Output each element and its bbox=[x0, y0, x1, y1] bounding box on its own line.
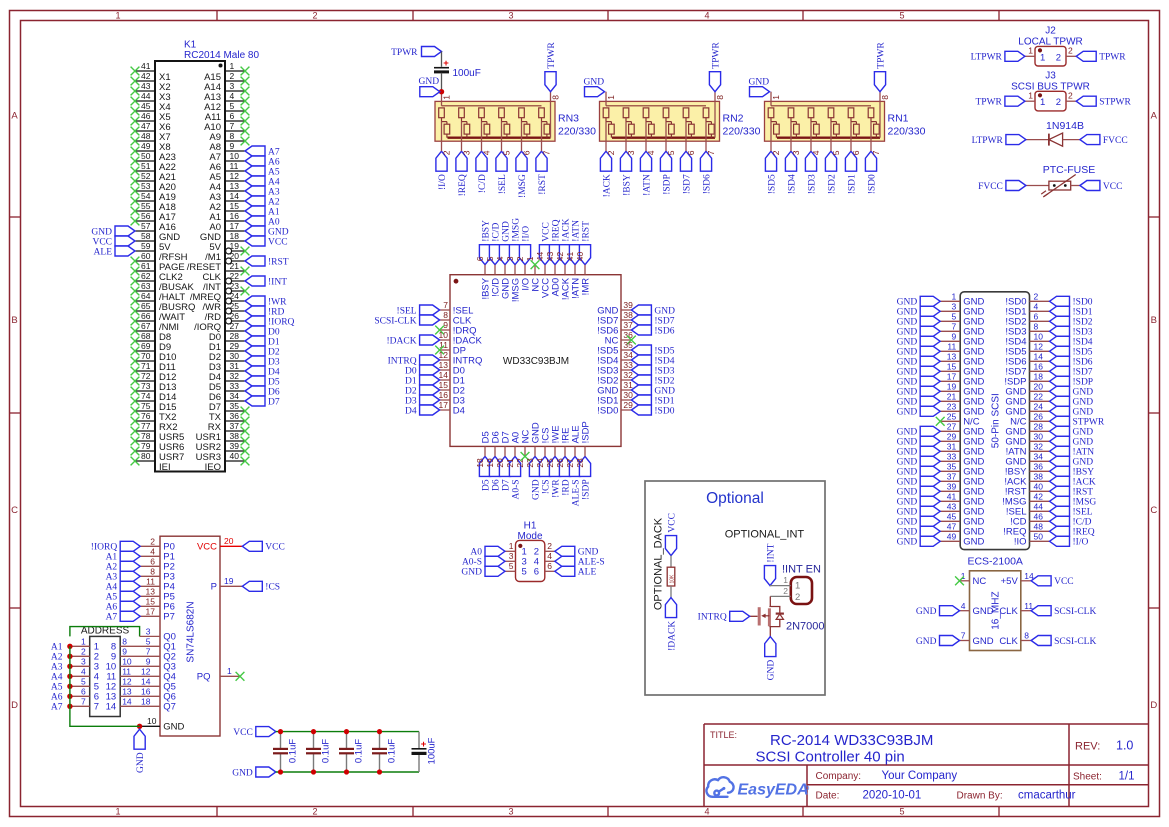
jumper pin 1 wire bbox=[770, 585, 791, 587]
SCSI pin 25 N/C bbox=[940, 420, 960, 422]
net flag !SDP at WD pin 28 bbox=[579, 456, 590, 476]
svg-text:!SEL: !SEL bbox=[397, 306, 417, 316]
svg-text:2020-10-01: 2020-10-01 bbox=[863, 790, 922, 802]
capacitor C? 0.1uF #4 bbox=[379, 732, 381, 749]
svg-text:!C/D: !C/D bbox=[1073, 518, 1092, 528]
WD33C93BJM pin 11 DP bbox=[440, 349, 450, 351]
svg-text:PTC-FUSE: PTC-FUSE bbox=[1043, 164, 1096, 176]
RN2 resistor element bottom leg 3 bbox=[629, 124, 635, 134]
svg-text:!SDP: !SDP bbox=[580, 421, 591, 443]
net flag D2 at WD pin 15 bbox=[420, 385, 440, 395]
svg-text:1: 1 bbox=[1028, 46, 1033, 56]
svg-text:GND: GND bbox=[654, 306, 675, 316]
SCSI pin 43 GND bbox=[940, 510, 960, 512]
svg-text:GND: GND bbox=[973, 606, 994, 617]
WD33C93BJM pin 6 !BSY bbox=[484, 265, 486, 275]
svg-text:12: 12 bbox=[122, 677, 132, 687]
svg-text:GND: GND bbox=[897, 428, 918, 438]
svg-text:SN74LS682N: SN74LS682N bbox=[185, 601, 196, 662]
svg-text:0.1uF: 0.1uF bbox=[288, 739, 299, 763]
svg-text:78: 78 bbox=[141, 431, 151, 441]
ground flag GND at SCSI pin 39 bbox=[920, 486, 940, 496]
resistor network RN2 body 220/330 bbox=[600, 101, 720, 141]
svg-text:6: 6 bbox=[547, 561, 552, 571]
svg-text:37: 37 bbox=[623, 320, 633, 330]
K1 pin 14 A2 bbox=[225, 200, 245, 202]
SCSI pin 12 !SD5 bbox=[1030, 350, 1050, 352]
svg-text:!SD0: !SD0 bbox=[597, 405, 618, 416]
K1 pin 4 A12 bbox=[225, 100, 245, 102]
K1 pin 62 /BUSAK bbox=[135, 280, 155, 282]
svg-text:!I/O: !I/O bbox=[521, 226, 531, 242]
svg-text:+: + bbox=[443, 58, 449, 69]
net flag !SD2 at WD pin 32 bbox=[631, 375, 651, 385]
svg-text:!MSG: !MSG bbox=[518, 174, 528, 198]
svg-text:2: 2 bbox=[312, 10, 317, 20]
SCSI pin 42 !MSG bbox=[1030, 500, 1050, 502]
K1 pin 57 GND bbox=[135, 230, 155, 232]
svg-text:42: 42 bbox=[1034, 492, 1044, 502]
svg-text:66: 66 bbox=[141, 311, 151, 321]
SCSI pin 32 !ATN bbox=[1030, 450, 1050, 452]
capacitor C? 0.1uF #3 bbox=[346, 732, 348, 749]
WD33C93BJM pin 12 INTRQ bbox=[440, 359, 450, 361]
svg-text:!SD3: !SD3 bbox=[654, 366, 674, 376]
svg-text:5: 5 bbox=[522, 567, 527, 578]
svg-text:20: 20 bbox=[1034, 382, 1044, 392]
svg-text:14: 14 bbox=[122, 697, 132, 707]
svg-text:5: 5 bbox=[230, 101, 235, 111]
K1 pin 5 A11 bbox=[225, 110, 245, 112]
svg-text:14: 14 bbox=[106, 702, 117, 713]
svg-text:38: 38 bbox=[623, 310, 633, 320]
svg-text:!IORQ: !IORQ bbox=[268, 317, 295, 327]
wire resistor to !DACK flag bbox=[670, 586, 672, 598]
WD33C93BJM pin 19 D6 bbox=[494, 446, 496, 456]
svg-text:73: 73 bbox=[141, 381, 151, 391]
net flag D0 at K1 pin 27 bbox=[245, 326, 265, 336]
K1 pin 38 USR2 bbox=[225, 440, 245, 442]
svg-text:!SD1: !SD1 bbox=[1073, 308, 1093, 318]
svg-text:TPWR: TPWR bbox=[976, 98, 1003, 108]
net flag !SEL at SCSI pin 44 bbox=[1050, 506, 1070, 516]
svg-text:GND: GND bbox=[1073, 458, 1094, 468]
svg-text:!WR: !WR bbox=[268, 297, 287, 307]
net flag LTPWR at J2 pin 1 bbox=[1005, 51, 1025, 61]
svg-text:A: A bbox=[1151, 111, 1158, 122]
net flag D1 at WD pin 14 bbox=[420, 375, 440, 385]
svg-text:VCC: VCC bbox=[667, 513, 677, 533]
net flag VCC at fuse right bbox=[1080, 181, 1100, 191]
svg-text:K1: K1 bbox=[184, 40, 197, 51]
svg-text:11: 11 bbox=[230, 161, 239, 171]
svg-text:7: 7 bbox=[94, 702, 99, 713]
ground flag GND at 2N7000 source bbox=[765, 637, 776, 657]
svg-text:2: 2 bbox=[783, 586, 788, 596]
svg-text:A7: A7 bbox=[51, 703, 63, 713]
K1 pin 18 5V bbox=[225, 240, 245, 242]
RN2 pin 4 wire bbox=[645, 122, 647, 152]
svg-text:SCSI-CLK: SCSI-CLK bbox=[374, 316, 416, 326]
svg-text:27: 27 bbox=[230, 321, 240, 331]
svg-text:46: 46 bbox=[1034, 512, 1044, 522]
svg-text:50-Pin SCSI: 50-Pin SCSI bbox=[990, 393, 1001, 448]
svg-text:17: 17 bbox=[230, 221, 240, 231]
net flag !SEL at RN3 pin 5 bbox=[496, 151, 507, 171]
K1 pin 36 RX bbox=[225, 420, 245, 422]
net flag !SEL at WD pin 7 bbox=[420, 305, 440, 315]
ADDRESS switch pin 10 wire to 682 bbox=[120, 665, 160, 667]
SCSI pin 48 !REQ bbox=[1030, 530, 1050, 532]
svg-text:0.1uF: 0.1uF bbox=[387, 739, 398, 763]
net flag INTRQ at WD pin 12 bbox=[420, 355, 440, 365]
svg-text:5: 5 bbox=[81, 677, 86, 687]
svg-text:45: 45 bbox=[141, 101, 151, 111]
RN1 resistor element bottom leg 4 bbox=[814, 124, 820, 134]
SCSI pin 14 !SD6 bbox=[1030, 360, 1050, 362]
K1 pin 70 D11 bbox=[135, 360, 155, 362]
SCSI pin 50 !IO bbox=[1030, 540, 1050, 542]
svg-text:39: 39 bbox=[623, 300, 633, 310]
svg-text:3: 3 bbox=[626, 150, 636, 155]
net flag VCC at osc pin 14 bbox=[1031, 576, 1051, 586]
svg-text:57: 57 bbox=[141, 221, 151, 231]
svg-text:16: 16 bbox=[141, 687, 151, 697]
svg-text:A4: A4 bbox=[268, 177, 280, 187]
RN1 pin 3 wire bbox=[790, 122, 792, 152]
RN2 resistor element top leg 2 bbox=[603, 108, 609, 118]
WD33C93BJM pin 36 NC bbox=[621, 339, 631, 341]
WD33C93BJM pin 5 !C/D bbox=[494, 265, 496, 275]
svg-text:!ATN: !ATN bbox=[1073, 448, 1095, 458]
RN3 internal bottom rail bbox=[448, 136, 551, 138]
svg-text:2: 2 bbox=[1034, 292, 1039, 302]
net flag !RST at K1 pin 20 bbox=[245, 256, 265, 266]
svg-text:1: 1 bbox=[771, 95, 781, 100]
svg-text:!RST: !RST bbox=[581, 221, 591, 242]
K1 pin 20 /RESET bbox=[226, 258, 232, 264]
svg-text:!INT EN: !INT EN bbox=[782, 563, 821, 575]
net flag !SD7 at SCSI pin 16 bbox=[1050, 366, 1070, 376]
K1 pin 3 A13 bbox=[225, 90, 245, 92]
svg-text:29: 29 bbox=[623, 400, 633, 410]
svg-text:3: 3 bbox=[462, 150, 472, 155]
svg-text:42: 42 bbox=[555, 251, 565, 261]
K1 pin 11 A5 bbox=[225, 170, 245, 172]
svg-text:1: 1 bbox=[951, 292, 956, 302]
SCSI pin 36 !BSY bbox=[1030, 470, 1050, 472]
RN3 resistor element bottom leg 5 bbox=[504, 124, 510, 134]
svg-text:1: 1 bbox=[525, 256, 535, 261]
svg-text:GND: GND bbox=[897, 408, 918, 418]
WD33C93BJM pin 10 !DACK bbox=[440, 339, 450, 341]
net flag !INT at K1 pin 22 bbox=[245, 276, 265, 286]
ADDRESS switch pin 3 wire bbox=[70, 665, 90, 667]
SN74LS682N pin 17 P7 bbox=[140, 615, 160, 617]
ADDRESS switch pin 14 wire to 682 bbox=[120, 705, 160, 707]
net flag !DACK in Optional bbox=[665, 598, 676, 618]
EasyEDA logo bbox=[706, 777, 733, 797]
SCSI pin 5 GND bbox=[940, 320, 960, 322]
svg-text:39: 39 bbox=[947, 482, 957, 492]
svg-text:!ACK: !ACK bbox=[1073, 478, 1096, 488]
svg-text:GND: GND bbox=[501, 221, 511, 242]
net flag !SD4 at SCSI pin 10 bbox=[1050, 336, 1070, 346]
svg-text:A0-S: A0-S bbox=[511, 479, 521, 499]
svg-text:+5V: +5V bbox=[1001, 576, 1019, 587]
resistor network RN1 body 220/330 bbox=[765, 101, 885, 141]
svg-text:35: 35 bbox=[947, 462, 957, 472]
SCSI pin 49 GND bbox=[940, 540, 960, 542]
fuse F? PTC-FUSE bbox=[1026, 185, 1049, 187]
net flag GND at SCSI pin 24 bbox=[1050, 406, 1070, 416]
power flag VCC in Optional bbox=[665, 536, 676, 556]
SCSI pin 4 !SD1 bbox=[1030, 310, 1050, 312]
net flag !IORQ at 682 pin 2 bbox=[120, 541, 140, 551]
K1 pin 48 X8 bbox=[135, 140, 155, 142]
net flag !RST at WD pin 40 bbox=[579, 245, 590, 265]
net flag !BSY at WD pin 6 bbox=[479, 245, 490, 265]
svg-text:8: 8 bbox=[1024, 631, 1029, 641]
svg-text:VCC: VCC bbox=[92, 237, 112, 247]
svg-text:5: 5 bbox=[899, 806, 904, 816]
svg-text:30: 30 bbox=[1034, 432, 1044, 442]
RN1 pin 5 wire bbox=[830, 122, 832, 152]
svg-text:GND: GND bbox=[916, 607, 937, 617]
WD33C93BJM pin 3 !MSG bbox=[514, 265, 516, 275]
svg-text:C: C bbox=[11, 505, 18, 516]
K1 pin 13 A3 bbox=[225, 190, 245, 192]
svg-text:6: 6 bbox=[534, 567, 539, 578]
SCSI pin 18 !SDP bbox=[1030, 380, 1050, 382]
svg-text:GND: GND bbox=[897, 338, 918, 348]
connector H1 Mode body bbox=[516, 540, 545, 581]
svg-text:GND: GND bbox=[973, 636, 994, 647]
RN2 pin 1 wire bbox=[605, 92, 607, 106]
svg-text:63: 63 bbox=[141, 281, 151, 291]
WD33C93BJM pin 14 D1 bbox=[440, 379, 450, 381]
net flag A1 at 682 pin 4 bbox=[120, 551, 140, 561]
svg-text:25: 25 bbox=[545, 458, 555, 468]
svg-text:GND: GND bbox=[461, 568, 482, 578]
K1 pin 27 D0 bbox=[225, 330, 245, 332]
wire VCC rail (green) bbox=[276, 731, 419, 733]
SN74LS682N pin 2 P0 bbox=[140, 545, 160, 547]
svg-text:D3: D3 bbox=[405, 396, 417, 406]
svg-text:A0: A0 bbox=[470, 548, 482, 558]
svg-text:GND: GND bbox=[232, 768, 253, 778]
svg-text:ECS-2100A: ECS-2100A bbox=[967, 556, 1022, 568]
svg-text:GND: GND bbox=[897, 498, 918, 508]
svg-text:14: 14 bbox=[141, 677, 151, 687]
SN74LS682N pin 15 P6 bbox=[140, 605, 160, 607]
RN1 resistor element top leg 2 bbox=[768, 108, 774, 118]
svg-text:5: 5 bbox=[509, 561, 514, 571]
net flag GND at SCSI pin 30 bbox=[1050, 436, 1070, 446]
svg-text:!CS: !CS bbox=[541, 479, 551, 494]
svg-text:1: 1 bbox=[442, 95, 452, 100]
svg-text:!SD1: !SD1 bbox=[654, 396, 674, 406]
svg-text:A: A bbox=[11, 111, 18, 122]
K1 pin 42 X2 bbox=[135, 80, 155, 82]
K1 pin 8 A8 bbox=[225, 140, 245, 142]
svg-text:2: 2 bbox=[1056, 52, 1061, 63]
svg-text:8: 8 bbox=[150, 567, 155, 577]
svg-text:REV:: REV: bbox=[1075, 741, 1100, 753]
RN1 resistor element bottom leg 5 bbox=[834, 124, 840, 134]
svg-text:32: 32 bbox=[623, 370, 633, 380]
net flag A6 at K1 pin 10 bbox=[245, 156, 265, 166]
net flag A7 at 682 pin 17 bbox=[120, 611, 140, 621]
svg-text:19: 19 bbox=[485, 458, 495, 468]
svg-text:6: 6 bbox=[522, 150, 532, 155]
svg-text:C: C bbox=[1150, 505, 1157, 516]
net flag ALE-S at WD pin 27 bbox=[569, 456, 580, 476]
RN1 pin 8 wire bbox=[879, 92, 881, 138]
net flag GND at WD pin 23 bbox=[529, 456, 540, 476]
K1 pin 40 IEO bbox=[225, 460, 245, 462]
svg-text:GND: GND bbox=[268, 227, 289, 237]
svg-text:9: 9 bbox=[122, 647, 127, 657]
svg-text:!SD2: !SD2 bbox=[654, 376, 674, 386]
svg-text:Mode: Mode bbox=[517, 531, 542, 542]
SCSI pin 22 GND bbox=[1030, 400, 1050, 402]
K1 pin 1 A15 bbox=[225, 70, 245, 72]
K1 pin 73 D14 bbox=[135, 390, 155, 392]
svg-text:8: 8 bbox=[122, 637, 127, 647]
svg-text:ALE-S: ALE-S bbox=[571, 479, 581, 506]
svg-text:32: 32 bbox=[230, 371, 240, 381]
RN1 resistor element bottom leg 7 bbox=[874, 124, 880, 134]
svg-text:GND: GND bbox=[897, 298, 918, 308]
svg-text:GND: GND bbox=[897, 368, 918, 378]
SCSI pin 2 !SD0 bbox=[1030, 300, 1050, 302]
svg-text:!RST: !RST bbox=[538, 174, 548, 195]
svg-text:GND: GND bbox=[897, 458, 918, 468]
RN1 resistor element top leg 3 bbox=[788, 108, 794, 118]
svg-text:13: 13 bbox=[947, 352, 957, 362]
svg-text:38: 38 bbox=[1034, 472, 1044, 482]
capacitor C? 0.1uF #2 bbox=[313, 732, 315, 749]
svg-text:35: 35 bbox=[230, 401, 240, 411]
svg-text:9: 9 bbox=[951, 332, 956, 342]
svg-text:7: 7 bbox=[443, 300, 448, 310]
RN2 pin 3 wire bbox=[625, 122, 627, 152]
SCSI pin 24 GND bbox=[1030, 410, 1050, 412]
svg-text:!SD7: !SD7 bbox=[654, 316, 674, 326]
svg-text:!IORQ: !IORQ bbox=[91, 543, 118, 553]
SCSI pin 21 GND bbox=[940, 400, 960, 402]
svg-text:!MSG: !MSG bbox=[511, 218, 521, 242]
oscillator pin 4 GND bbox=[960, 610, 970, 612]
svg-text:3: 3 bbox=[508, 806, 513, 816]
svg-text:!SEL: !SEL bbox=[498, 174, 508, 194]
svg-text:A2: A2 bbox=[106, 563, 118, 573]
svg-text:15: 15 bbox=[230, 201, 240, 211]
net flag !C/D at WD pin 5 bbox=[489, 245, 500, 265]
svg-text:B: B bbox=[11, 315, 17, 326]
svg-text:13: 13 bbox=[439, 360, 449, 370]
J2 pin 1 wire bbox=[1025, 55, 1035, 57]
svg-text:40: 40 bbox=[575, 251, 585, 261]
svg-text:220/330: 220/330 bbox=[888, 126, 926, 138]
K1 pin 64 /BUSRQ bbox=[135, 300, 155, 302]
svg-text:23: 23 bbox=[947, 402, 957, 412]
connector K1 RC2014 Male 80 body bbox=[155, 61, 225, 472]
svg-text:52: 52 bbox=[141, 171, 151, 181]
svg-text:GND: GND bbox=[897, 378, 918, 388]
junction dot at A2 bbox=[67, 654, 72, 659]
svg-text:3: 3 bbox=[505, 256, 515, 261]
svg-text:!MR: !MR bbox=[580, 278, 591, 296]
svg-text:TPWR: TPWR bbox=[876, 42, 886, 69]
K1 pin 16 A0 bbox=[225, 220, 245, 222]
svg-text:2: 2 bbox=[795, 592, 800, 603]
svg-text:80: 80 bbox=[141, 451, 151, 461]
svg-text:GND: GND bbox=[897, 468, 918, 478]
ground flag GND at SCSI pin 1 bbox=[920, 296, 940, 306]
svg-text:!IO: !IO bbox=[1014, 537, 1027, 548]
SCSI pin 34 GND bbox=[1030, 460, 1050, 462]
svg-text:0.1uF: 0.1uF bbox=[354, 739, 365, 763]
junction dots cap #3 bbox=[344, 729, 349, 734]
svg-text:2: 2 bbox=[81, 647, 86, 657]
svg-text:13: 13 bbox=[146, 587, 156, 597]
svg-text:30: 30 bbox=[230, 351, 240, 361]
net flag !SD5 at SCSI pin 12 bbox=[1050, 346, 1070, 356]
svg-text:79: 79 bbox=[141, 441, 151, 451]
ground flag GND at SCSI pin 15 bbox=[920, 366, 940, 376]
svg-text:8: 8 bbox=[1034, 322, 1039, 332]
svg-text:36: 36 bbox=[1034, 462, 1044, 472]
ground flag GND at decoupling rail bbox=[256, 767, 276, 777]
svg-text:!SEL: !SEL bbox=[1073, 508, 1093, 518]
SCSI pin 33 GND bbox=[940, 460, 960, 462]
ground flag GND at SCSI pin 23 bbox=[920, 406, 940, 416]
svg-text:Optional: Optional bbox=[706, 490, 764, 507]
K1 pin 74 D15 bbox=[135, 400, 155, 402]
net flag !SD5 at RN1 pin 2 bbox=[765, 151, 776, 171]
svg-text:32: 32 bbox=[1034, 442, 1044, 452]
svg-text:A6: A6 bbox=[51, 693, 63, 703]
svg-text:1N914B: 1N914B bbox=[1046, 120, 1084, 132]
K1 pin 66 /NMI bbox=[135, 320, 155, 322]
svg-text:!SD2: !SD2 bbox=[827, 174, 837, 194]
net flag !CS at WD pin 24 bbox=[539, 456, 550, 476]
svg-text:NC: NC bbox=[973, 576, 987, 587]
svg-text:TITLE:: TITLE: bbox=[710, 730, 737, 740]
net flag D7 at WD pin 20 bbox=[499, 456, 510, 476]
transistor Q? 2N7000 bbox=[750, 615, 758, 617]
K1 pin 63 /HALT bbox=[135, 290, 155, 292]
svg-text:12: 12 bbox=[141, 667, 151, 677]
svg-text:27: 27 bbox=[565, 458, 575, 468]
svg-text:!SD6: !SD6 bbox=[1073, 358, 1093, 368]
svg-text:5: 5 bbox=[502, 150, 512, 155]
ADDRESS switch pin 2 wire bbox=[70, 655, 90, 657]
svg-text:TPWR: TPWR bbox=[1099, 53, 1126, 63]
net flag !REQ at WD pin 43 bbox=[549, 245, 560, 265]
WD33C93BJM pin 39 GND bbox=[621, 309, 631, 311]
RN2 resistor element top leg 3 bbox=[623, 108, 629, 118]
svg-text:GND: GND bbox=[897, 318, 918, 328]
svg-text:SCSI-CLK: SCSI-CLK bbox=[1054, 607, 1096, 617]
resistor R? 10K vertical bbox=[667, 567, 675, 586]
RN2 resistor element bottom leg 4 bbox=[649, 124, 655, 134]
svg-text:GND: GND bbox=[531, 479, 541, 500]
svg-text:4: 4 bbox=[547, 551, 552, 561]
svg-text:2: 2 bbox=[442, 150, 452, 155]
